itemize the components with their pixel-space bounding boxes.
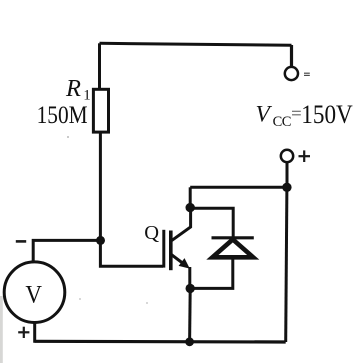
label R1 (65, 75, 91, 103)
node loop right (282, 183, 291, 192)
wire right vertical (286, 187, 287, 342)
label plus (terminal) (299, 150, 311, 162)
svg-text:150M: 150M (37, 102, 88, 129)
label minus (terminal) (304, 73, 310, 75)
label Vcc=150V (256, 100, 353, 130)
wire emitter down (188, 288, 192, 342)
wire voltmeter minus branch (33, 240, 100, 262)
wire gate branch (100, 240, 163, 266)
svg-text:R: R (65, 75, 81, 102)
wire resistor top (98, 43, 101, 90)
node bottom junction (185, 337, 194, 346)
wire diode top lead (190, 208, 233, 238)
wire to negative terminal (290, 45, 293, 67)
node junction gate/resistor (96, 236, 105, 245)
resistor R1 (93, 89, 108, 132)
label plus (voltmeter) (18, 327, 29, 338)
svg-text:1: 1 (83, 87, 91, 103)
voltmeter V (4, 262, 65, 323)
wire top horizontal (100, 43, 292, 45)
wire bottom (35, 340, 286, 344)
wire voltmeter plus branch (33, 323, 37, 342)
transistor Q (IGBT) (164, 208, 191, 289)
wire collector up (189, 187, 192, 207)
paper edge shading (0, 296, 3, 363)
svg-text:150V: 150V (301, 100, 353, 129)
wire from positive terminal (286, 162, 289, 187)
svg-text:V: V (256, 102, 273, 128)
diode D (freewheeling) (212, 238, 254, 257)
label minus (voltmeter) (16, 240, 26, 243)
node collector (186, 203, 195, 212)
terminal positive (281, 150, 293, 162)
svg-text:Q: Q (144, 222, 159, 244)
node emitter (186, 284, 195, 293)
wire diode bottom lead (190, 257, 233, 288)
terminal negative (285, 67, 298, 80)
speck artifacts (67, 136, 69, 138)
svg-text:CC: CC (273, 114, 291, 130)
svg-text:V: V (25, 279, 42, 308)
wire loop top (190, 186, 287, 189)
wire resistor bottom (99, 132, 102, 240)
